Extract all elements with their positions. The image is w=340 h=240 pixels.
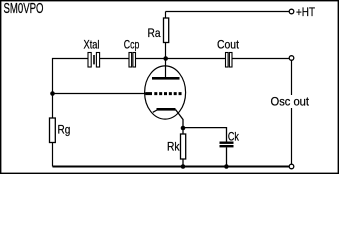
terminal osc out top	[289, 56, 294, 61]
wire Ra bottom lead	[165, 43, 167, 59]
cathode bar	[157, 108, 176, 111]
svg-text:Ccp: Ccp	[124, 38, 140, 52]
node anode junction	[163, 56, 168, 61]
wire Rk bottom lead	[182, 159, 184, 167]
resistor Ra	[164, 18, 169, 43]
wire grid lead	[53, 93, 153, 95]
terminal bottom right	[289, 164, 294, 169]
terminal +HT	[289, 9, 294, 14]
wire output vertical	[291, 61, 293, 165]
wire Cout to output terminal	[232, 58, 289, 60]
resistor Rg	[50, 118, 56, 143]
wire Ra top lead	[165, 12, 167, 19]
capacitor Cout	[226, 53, 233, 68]
resistor Rk	[181, 134, 186, 159]
wire cathode lead	[176, 110, 184, 129]
node cathode junction	[181, 126, 186, 131]
capacitor Ck	[220, 142, 234, 148]
wire left vertical from grid circuit	[53, 59, 89, 119]
wire Rg bottom lead	[52, 143, 54, 167]
tube V1 envelope	[145, 66, 186, 119]
wire anode lead	[165, 59, 167, 78]
grid electrode inner stub	[145, 92, 152, 95]
node grid junction	[50, 91, 55, 96]
wire HT rail	[166, 11, 290, 13]
svg-text:+HT: +HT	[296, 5, 316, 19]
node Rk on rail	[181, 164, 186, 169]
wire anode node to Cout	[166, 58, 226, 60]
border frame	[1, 1, 339, 174]
svg-text:Rk: Rk	[167, 139, 180, 153]
svg-text:SM0VPO: SM0VPO	[4, 1, 44, 17]
wire cathode junction to Ck	[183, 128, 227, 142]
svg-text:Osc out: Osc out	[271, 95, 310, 109]
crystal Xtal	[88, 53, 100, 68]
svg-text:Ra: Ra	[148, 26, 161, 40]
svg-text:Cout: Cout	[217, 38, 240, 52]
svg-text:Rg: Rg	[58, 123, 71, 137]
anode plate bar	[152, 77, 180, 80]
wire Rk top lead	[182, 128, 184, 134]
wire ground rail	[53, 166, 290, 168]
wire Ccp to anode node	[136, 58, 166, 60]
svg-text:Xtal: Xtal	[84, 38, 100, 52]
capacitor Ccp	[129, 53, 136, 68]
wire Xtal to Ccp	[100, 58, 129, 60]
node Ck on rail	[224, 164, 229, 169]
label Osc out	[268, 95, 310, 109]
cathode left tail	[153, 110, 157, 112]
wire Ck bottom lead	[226, 147, 228, 166]
svg-text:Ck: Ck	[228, 129, 240, 143]
grid dashed electrode	[154, 92, 182, 95]
